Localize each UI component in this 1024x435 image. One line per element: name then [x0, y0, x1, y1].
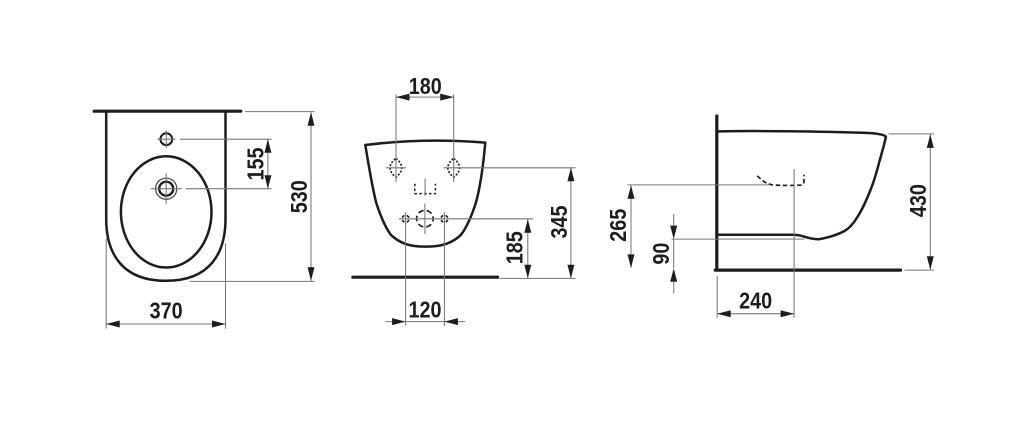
wall line — [94, 110, 241, 113]
svg-text:265: 265 — [605, 209, 631, 242]
dim 370 ext lines — [106, 239, 225, 329]
side hole right — [441, 215, 448, 222]
fixing hole right cross — [443, 167, 575, 169]
fixing hole left — [390, 158, 402, 177]
dim 180 ext lines — [396, 95, 454, 183]
dim 530 line — [310, 112, 312, 281]
dim 240 arrows — [717, 310, 794, 317]
centerline — [793, 169, 795, 318]
fixing hole right — [448, 158, 460, 177]
floor line — [353, 276, 498, 279]
dim 120 arrows — [392, 318, 458, 325]
dim 90 top tail — [673, 214, 675, 226]
dim 155 line — [267, 139, 269, 189]
side hole left — [402, 215, 409, 222]
svg-text:155: 155 — [243, 147, 269, 180]
drain cross — [399, 203, 533, 234]
dim 90 bottom tail — [673, 282, 675, 294]
dim 185 line — [527, 219, 529, 278]
dim 265 ext top — [628, 184, 770, 186]
dim 345 line — [570, 168, 572, 278]
dim 530 ext lines — [190, 112, 315, 282]
body outline — [365, 141, 485, 247]
dim 155 ext lines — [180, 139, 272, 189]
body outline — [106, 113, 225, 281]
dim 180 arrows — [396, 94, 454, 101]
body profile — [719, 131, 886, 239]
dim 90 top arrow — [670, 226, 677, 240]
dim 430 arrows — [927, 134, 934, 269]
svg-text:180: 180 — [409, 73, 442, 99]
svg-text:530: 530 — [286, 180, 312, 213]
svg-text:90: 90 — [648, 243, 674, 265]
dim 265 arrows — [628, 185, 635, 268]
dim 430 line — [929, 134, 931, 269]
wall vertical — [715, 116, 718, 270]
dim 90 line — [673, 239, 675, 268]
svg-text:430: 430 — [905, 184, 931, 217]
dim 155 arrows — [264, 139, 271, 189]
dim 120 line — [386, 321, 466, 323]
dim 430 ext top — [889, 133, 935, 135]
tap hole cross — [151, 174, 182, 205]
dim 370 arrows — [106, 321, 225, 328]
tap hole inner — [159, 182, 173, 196]
dim 265 line — [630, 185, 632, 268]
dim 345 arrows — [567, 168, 574, 278]
dim 240 wall ext — [716, 276, 718, 318]
hidden basin dashed arc — [757, 175, 804, 186]
svg-text:185: 185 — [502, 231, 528, 264]
dim 90 ext line — [672, 238, 805, 240]
svg-text:240: 240 — [739, 287, 772, 313]
dim 180 line — [396, 96, 454, 98]
small hole cross — [157, 130, 175, 148]
fixing hole left cross — [386, 167, 407, 169]
inlet bracket dashed — [415, 184, 436, 194]
dim 185 arrows — [524, 219, 531, 278]
dim 370 line — [106, 323, 225, 325]
dim 120 ext lines — [406, 212, 445, 326]
drain hole dashed circle — [417, 210, 434, 227]
dim 530 arrows — [308, 112, 315, 281]
floor horizontal — [715, 269, 900, 272]
basin oval — [121, 156, 212, 267]
svg-text:120: 120 — [409, 297, 442, 323]
svg-text:370: 370 — [150, 297, 183, 323]
svg-text:345: 345 — [546, 205, 572, 238]
dim 430 ext bottom — [904, 269, 934, 271]
dim 345 ext bottom — [500, 277, 576, 279]
tap hole outer — [156, 178, 177, 199]
dim 240 line — [717, 313, 794, 315]
small hole circle — [160, 133, 172, 145]
dim 90 bottom arrow — [670, 268, 677, 282]
inlet centerline — [424, 178, 426, 195]
